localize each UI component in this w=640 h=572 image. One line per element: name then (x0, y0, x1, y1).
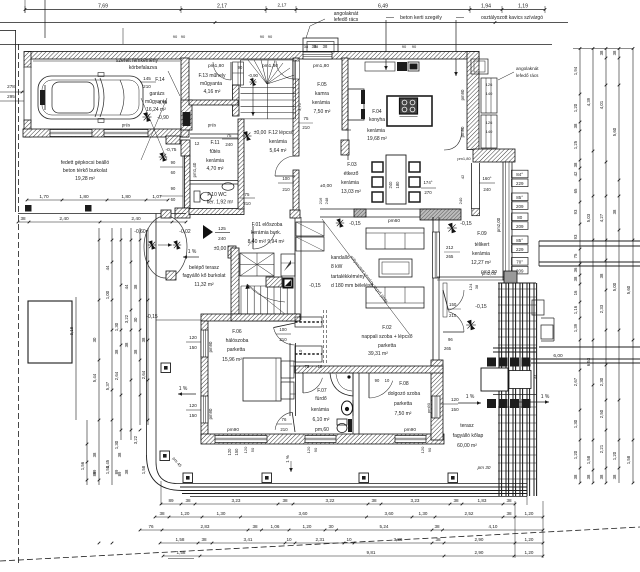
svg-text:7,50 m²: 7,50 m² (395, 411, 412, 417)
kamra east wall (342, 58, 348, 130)
svg-text:210: 210 (143, 84, 151, 89)
room F12 stair top (243, 132, 252, 141)
svg-text:10: 10 (346, 537, 352, 542)
dining chairs (372, 162, 383, 172)
svg-text:90: 90 (412, 44, 417, 49)
svg-text:7,69: 7,69 (98, 4, 108, 10)
svg-text:3,41: 3,41 (244, 537, 253, 542)
tree ellipse entry (144, 216, 187, 278)
svg-text:140: 140 (486, 129, 493, 134)
svg-text:1,16: 1,16 (573, 305, 578, 314)
curved kitchen corner (444, 128, 462, 150)
svg-text:2,40: 2,40 (131, 216, 141, 222)
svg-text:5,64 m²: 5,64 m² (270, 148, 287, 154)
south exterior wall (201, 434, 444, 444)
svg-text:120: 120 (189, 335, 197, 340)
svg-text:4,39: 4,39 (586, 97, 591, 106)
svg-text:parketta: parketta (227, 347, 245, 353)
bedroom east wall (289, 343, 291, 416)
svg-text:pm1,80: pm1,80 (457, 156, 471, 161)
svg-text:1,20: 1,20 (525, 511, 534, 516)
svg-text:90: 90 (171, 186, 176, 191)
dining table (386, 155, 406, 204)
svg-text:pm2,00: pm2,00 (496, 217, 501, 232)
svg-text:F.12 lépcső: F.12 lépcső (268, 130, 294, 136)
svg-text:174°: 174° (423, 180, 432, 185)
svg-text:38: 38 (599, 273, 604, 278)
svg-text:150: 150 (189, 413, 197, 418)
svg-text:120: 120 (189, 403, 197, 408)
svg-text:75: 75 (573, 253, 578, 258)
left dim verticals (76, 228, 149, 544)
right dim verticals (573, 47, 634, 484)
door stair-hall arc (275, 156, 295, 176)
stair walk line (247, 284, 285, 302)
svg-text:65: 65 (573, 188, 578, 193)
svg-text:38: 38 (133, 349, 138, 354)
svg-text:6,10 m²: 6,10 m² (313, 417, 330, 423)
svg-text:2,50: 2,50 (599, 409, 604, 418)
svg-text:2,64: 2,64 (141, 370, 146, 379)
svg-text:pm90: pm90 (208, 341, 213, 352)
east exterior wall kitchen (467, 52, 479, 150)
svg-text:F.06: F.06 (232, 329, 242, 335)
kitchen counters (348, 89, 364, 120)
svg-text:229: 229 (516, 181, 524, 186)
svg-text:pm1,80: pm1,80 (262, 63, 278, 69)
svg-text:F.05: F.05 (317, 82, 327, 88)
svg-text:44: 44 (533, 374, 538, 379)
svg-text:-0,15: -0,15 (309, 283, 321, 289)
bedroom west wall (201, 321, 208, 441)
svg-text:210: 210 (449, 313, 457, 318)
svg-text:38: 38 (506, 498, 512, 503)
telikert south glass (437, 276, 512, 278)
bedroom door SE (275, 412, 292, 430)
stair upper flight (240, 253, 274, 276)
telikert west glass wall (471, 163, 473, 209)
property boundary dashed left (18, 44, 20, 563)
svg-text:4,16 m²: 4,16 m² (204, 89, 221, 95)
svg-text:parketta: parketta (394, 401, 412, 407)
svg-text:295: 295 (7, 94, 15, 99)
wall between muhely and stair (233, 85, 240, 116)
svg-text:7,50 m²: 7,50 m² (314, 109, 331, 115)
wall F11 north thin (190, 133, 238, 135)
vertical connectors bottom (160, 481, 162, 505)
svg-text:-0,90: -0,90 (157, 115, 169, 121)
svg-text:F.07: F.07 (317, 388, 327, 394)
closet units west wall (296, 222, 324, 236)
svg-text:90: 90 (268, 34, 273, 39)
svg-text:fedett gépkocsi beálló: fedett gépkocsi beálló (61, 160, 110, 166)
svg-text:pm1,80: pm1,80 (313, 63, 329, 69)
svg-text:13,03 m²: 13,03 m² (341, 189, 361, 195)
svg-text:90: 90 (427, 447, 432, 452)
svg-text:5,44: 5,44 (92, 373, 97, 382)
svg-text:38: 38 (304, 44, 309, 49)
kitchen west lower wall (345, 129, 351, 131)
svg-text:90: 90 (260, 34, 265, 39)
sink top (397, 62, 407, 71)
svg-text:150: 150 (451, 407, 459, 412)
svg-text:6,49: 6,49 (378, 4, 388, 10)
svg-text:2,31: 2,31 (316, 537, 325, 542)
svg-text:1,30: 1,30 (419, 511, 428, 516)
svg-text:1,20: 1,20 (573, 103, 578, 112)
svg-text:1,56: 1,56 (80, 461, 85, 470)
svg-text:F.02: F.02 (382, 325, 392, 331)
svg-text:-0,15: -0,15 (349, 221, 361, 227)
svg-text:F.10 WC: F.10 WC (207, 192, 227, 198)
svg-text:38: 38 (573, 474, 578, 479)
property line left (15, 30, 17, 212)
svg-text:120: 120 (451, 397, 459, 402)
svg-text:120: 120 (306, 446, 311, 453)
svg-text:38: 38 (141, 337, 146, 342)
svg-text:90: 90 (173, 34, 178, 39)
svg-text:42: 42 (573, 171, 578, 176)
svg-text:pm60: pm60 (388, 218, 400, 224)
svg-text:terasz: terasz (460, 423, 474, 429)
svg-text:±0,00: ±0,00 (320, 183, 332, 189)
svg-text:42: 42 (460, 174, 465, 179)
svg-text:pm2,00: pm2,00 (482, 271, 497, 276)
svg-text:3,75: 3,75 (297, 102, 302, 111)
fence line top (0, 44, 552, 46)
svg-text:90: 90 (402, 44, 407, 49)
svg-text:210: 210 (282, 187, 290, 192)
svg-text:kamra: kamra (315, 91, 329, 97)
svg-text:műgyanta: műgyanta (200, 81, 222, 87)
svg-text:±0,00: ±0,00 (254, 130, 267, 136)
svg-text:90: 90 (181, 34, 186, 39)
bottom dim row A (161, 503, 515, 505)
svg-text:kerámia: kerámia (206, 158, 224, 164)
bottom dim row D (160, 542, 543, 544)
svg-text:fűtés: fűtés (210, 149, 221, 155)
property boundary dashed bottom (0, 527, 640, 561)
svg-text:11,32 m²: 11,32 m² (194, 282, 214, 288)
svg-text:1,30: 1,30 (573, 419, 578, 428)
svg-text:3,60: 3,60 (299, 511, 308, 516)
svg-text:50: 50 (250, 447, 255, 452)
svg-text:36: 36 (573, 267, 578, 272)
svg-text:dolgozó szoba: dolgozó szoba (388, 391, 420, 397)
stair west wall (231, 248, 239, 314)
svg-text:1 %: 1 % (541, 394, 550, 400)
svg-text:210: 210 (302, 125, 310, 130)
svg-text:150: 150 (234, 448, 239, 456)
svg-text:pm1,80: pm1,80 (208, 63, 224, 69)
corridor wardrobes (295, 317, 322, 327)
svg-text:120: 120 (243, 446, 248, 453)
chimney block (283, 278, 294, 289)
svg-text:fagyálló kő burkolat: fagyálló kő burkolat (182, 273, 226, 279)
svg-text:90: 90 (171, 160, 176, 165)
svg-text:38: 38 (612, 50, 617, 55)
svg-text:126: 126 (486, 120, 493, 125)
stair small closet (281, 254, 295, 276)
svg-text:1,20: 1,20 (303, 524, 312, 529)
svg-text:-0,90: -0,90 (248, 73, 259, 78)
carport gate swing X (141, 98, 167, 160)
svg-text:1,45: 1,45 (105, 459, 110, 468)
svg-text:76: 76 (148, 524, 154, 529)
entry threshold hatch (166, 271, 176, 280)
svg-text:1 %: 1 % (179, 386, 188, 392)
svg-text:3,22: 3,22 (133, 435, 138, 444)
light well NE (471, 59, 488, 74)
svg-text:3,23: 3,23 (411, 498, 420, 503)
deck rungs (498, 289, 536, 479)
svg-text:150: 150 (189, 345, 197, 350)
svg-text:F.13 műhely: F.13 műhely (199, 73, 226, 79)
svg-text:5,03: 5,03 (586, 213, 591, 222)
top annotation labels (123, 11, 543, 76)
light well top (303, 38, 338, 52)
svg-text:1,20: 1,20 (181, 511, 190, 516)
outdoor table (481, 368, 508, 391)
svg-text:209: 209 (516, 204, 524, 209)
svg-text:konyha: konyha (369, 117, 385, 123)
svg-text:körbefalazva: körbefalazva (129, 65, 158, 71)
stair F12 treads (241, 60, 296, 119)
wall F11 south / WC north thin (190, 180, 238, 182)
svg-text:216: 216 (318, 197, 323, 204)
deck frame lines (493, 347, 536, 349)
svg-text:38: 38 (474, 284, 479, 289)
west garage wall (24, 52, 31, 68)
chimney hatch stub (266, 277, 282, 287)
svg-text:5,24: 5,24 (380, 524, 389, 529)
bed (243, 358, 281, 401)
svg-text:210: 210 (280, 427, 288, 432)
svg-text:pm90: pm90 (426, 402, 431, 413)
svg-text:1,25: 1,25 (573, 140, 578, 149)
svg-text:16,24 m²: 16,24 m² (146, 107, 166, 113)
svg-text:125: 125 (218, 226, 226, 231)
svg-text:tartalékkémény: tartalékkémény (331, 274, 365, 280)
svg-text:4,01: 4,01 (599, 100, 604, 109)
terrace posts (160, 451, 170, 461)
svg-text:209: 209 (516, 224, 524, 229)
stair lower treads (241, 286, 293, 314)
svg-text:240: 240 (218, 236, 226, 241)
svg-text:60: 60 (171, 197, 176, 202)
svg-text:1,20: 1,20 (525, 537, 534, 542)
shower (330, 373, 353, 396)
svg-text:F.09: F.09 (477, 231, 487, 237)
svg-text:16: 16 (573, 290, 578, 295)
svg-text:85°: 85° (516, 195, 523, 200)
svg-text:210: 210 (243, 201, 251, 206)
svg-text:12: 12 (195, 141, 200, 146)
hall south wall / entry (228, 246, 236, 258)
svg-text:19,28 m²: 19,28 m² (75, 176, 95, 182)
svg-text:beton térkő burkolat: beton térkő burkolat (63, 168, 108, 174)
svg-text:4,70 m²: 4,70 m² (207, 166, 224, 172)
svg-text:1,20: 1,20 (612, 451, 617, 460)
svg-text:160°: 160° (482, 176, 491, 181)
car in garage (38, 73, 143, 123)
svg-text:1,30: 1,30 (114, 440, 119, 449)
svg-text:10: 10 (318, 364, 323, 369)
svg-text:84°: 84° (516, 172, 523, 177)
svg-text:angolaknát: angolaknát (516, 66, 539, 71)
svg-text:120: 120 (227, 448, 232, 456)
svg-text:1 %: 1 % (188, 249, 197, 255)
svg-text:F.11: F.11 (210, 140, 219, 146)
svg-text:270: 270 (424, 190, 432, 195)
svg-text:75: 75 (245, 192, 250, 197)
study door (369, 381, 393, 398)
svg-text:2,33: 2,33 (599, 304, 604, 313)
svg-text:F.08: F.08 (399, 381, 409, 387)
svg-text:90: 90 (313, 447, 318, 452)
svg-text:1,58: 1,58 (141, 465, 146, 474)
hob (400, 98, 418, 114)
svg-text:1,70: 1,70 (39, 194, 49, 200)
svg-text:d 180 mm bélelésű: d 180 mm bélelésű (331, 283, 373, 289)
svg-text:2,30: 2,30 (599, 377, 604, 386)
svg-text:-0,75: -0,75 (166, 147, 177, 153)
carport corner hatch (166, 136, 180, 144)
svg-text:38: 38 (252, 524, 258, 529)
svg-text:1,30: 1,30 (217, 511, 226, 516)
svg-text:étkező: étkező (344, 171, 359, 177)
svg-text:kerámia: kerámia (341, 180, 359, 186)
svg-text:kerámia: kerámia (312, 100, 330, 106)
svg-text:F.14: F.14 (155, 77, 165, 83)
east windows kitchen (481, 78, 497, 113)
svg-text:38: 38 (573, 162, 578, 167)
svg-text:38: 38 (371, 498, 377, 503)
deck dark squares row1 (487, 358, 496, 367)
terrace south retaining lines (180, 486, 527, 488)
deck dark squares row2 (487, 399, 496, 408)
study east wall (431, 360, 443, 440)
svg-text:lefedő rács: lefedő rács (516, 73, 539, 78)
svg-text:F.01 előszoba: F.01 előszoba (252, 222, 283, 228)
post west edge (161, 363, 171, 373)
svg-text:10: 10 (298, 349, 303, 354)
core west wall (garage/carport to rooms) (181, 58, 189, 137)
svg-text:2,17: 2,17 (217, 4, 227, 10)
svg-text:pm90: pm90 (208, 408, 213, 419)
svg-text:180: 180 (395, 181, 400, 189)
svg-text:1,06: 1,06 (271, 524, 280, 529)
svg-text:1,20: 1,20 (525, 550, 534, 555)
carport south edge (18, 213, 186, 215)
svg-text:pm90: pm90 (227, 427, 239, 433)
svg-text:240: 240 (458, 197, 463, 204)
grill dark square top (504, 271, 517, 283)
wc basin (222, 183, 234, 191)
svg-text:pm 30: pm 30 (477, 465, 491, 470)
svg-text:pm90: pm90 (460, 89, 465, 100)
hall wall chunks (161, 210, 171, 218)
dimension chain top (0, 0, 568, 38)
carport dim row (27, 199, 168, 201)
svg-text:75: 75 (304, 116, 309, 121)
bath door (303, 378, 322, 393)
coffee table (379, 259, 412, 277)
closet wall living west (294, 217, 296, 320)
wall WC south (189, 209, 244, 215)
entry terrace west edge (146, 230, 148, 455)
svg-text:1,07: 1,07 (152, 194, 162, 200)
site retaining lines right (539, 240, 640, 242)
bedroom north wall (201, 314, 300, 321)
svg-text:1,39: 1,39 (573, 323, 578, 332)
svg-text:1,58: 1,58 (586, 455, 591, 464)
svg-text:38: 38 (506, 511, 512, 516)
svg-text:kerámia: kerámia (269, 139, 287, 145)
svg-text:90: 90 (375, 378, 380, 383)
kamra north window (303, 52, 332, 59)
svg-text:38: 38 (586, 474, 591, 479)
svg-text:pm1,40: pm1,40 (192, 162, 197, 177)
svg-text:-0,15: -0,15 (475, 304, 487, 310)
svg-text:240: 240 (483, 187, 491, 192)
svg-text:nappali szoba + lépcső: nappali szoba + lépcső (361, 334, 412, 340)
svg-text:38: 38 (573, 123, 578, 128)
sofa top (366, 228, 424, 249)
svg-text:38: 38 (599, 50, 604, 55)
svg-text:30: 30 (328, 524, 334, 529)
svg-text:2,17: 2,17 (278, 3, 287, 8)
svg-text:12,27 m²: 12,27 m² (471, 260, 491, 266)
svg-text:2,21: 2,21 (599, 444, 604, 453)
svg-text:parketta: parketta (378, 343, 396, 349)
svg-text:1,30: 1,30 (114, 322, 119, 331)
svg-text:5,37: 5,37 (105, 381, 110, 390)
wall muhely/F11 horizontal (189, 100, 238, 105)
svg-text:38: 38 (612, 474, 617, 479)
svg-text:96: 96 (448, 337, 453, 342)
stair walk line (249, 78, 256, 85)
stair south wall (231, 314, 300, 321)
svg-text:60,00 m²: 60,00 m² (457, 443, 477, 449)
svg-text:3,86: 3,86 (394, 537, 403, 542)
svg-text:1,94: 1,94 (481, 4, 491, 10)
svg-text:±0,00: ±0,00 (214, 246, 227, 252)
svg-text:38: 38 (185, 498, 191, 503)
svg-text:belépő terasz: belépő terasz (189, 265, 220, 271)
kitchen west lower stub (341, 140, 349, 155)
chimney block garage (181, 100, 192, 130)
svg-text:1,80: 1,80 (121, 194, 131, 200)
svg-text:1 %: 1 % (466, 394, 475, 400)
svg-text:150: 150 (449, 302, 457, 307)
svg-text:pm,60: pm,60 (315, 427, 329, 433)
svg-text:38: 38 (453, 498, 459, 503)
bedroom door NE (274, 328, 296, 345)
left dim lower extension (86, 420, 88, 485)
svg-text:70°: 70° (516, 260, 523, 265)
svg-text:30: 30 (92, 337, 97, 342)
svg-text:2,40: 2,40 (59, 216, 69, 222)
svg-text:38: 38 (435, 537, 441, 542)
svg-text:44: 44 (124, 284, 129, 289)
svg-text:ker. 1,92 m²: ker. 1,92 m² (207, 200, 234, 206)
svg-text:3,22: 3,22 (326, 498, 335, 503)
svg-text:1 %: 1 % (285, 455, 290, 463)
svg-text:38: 38 (314, 44, 319, 49)
shed rectangle left (28, 301, 72, 363)
garage door panels (50, 130, 92, 137)
